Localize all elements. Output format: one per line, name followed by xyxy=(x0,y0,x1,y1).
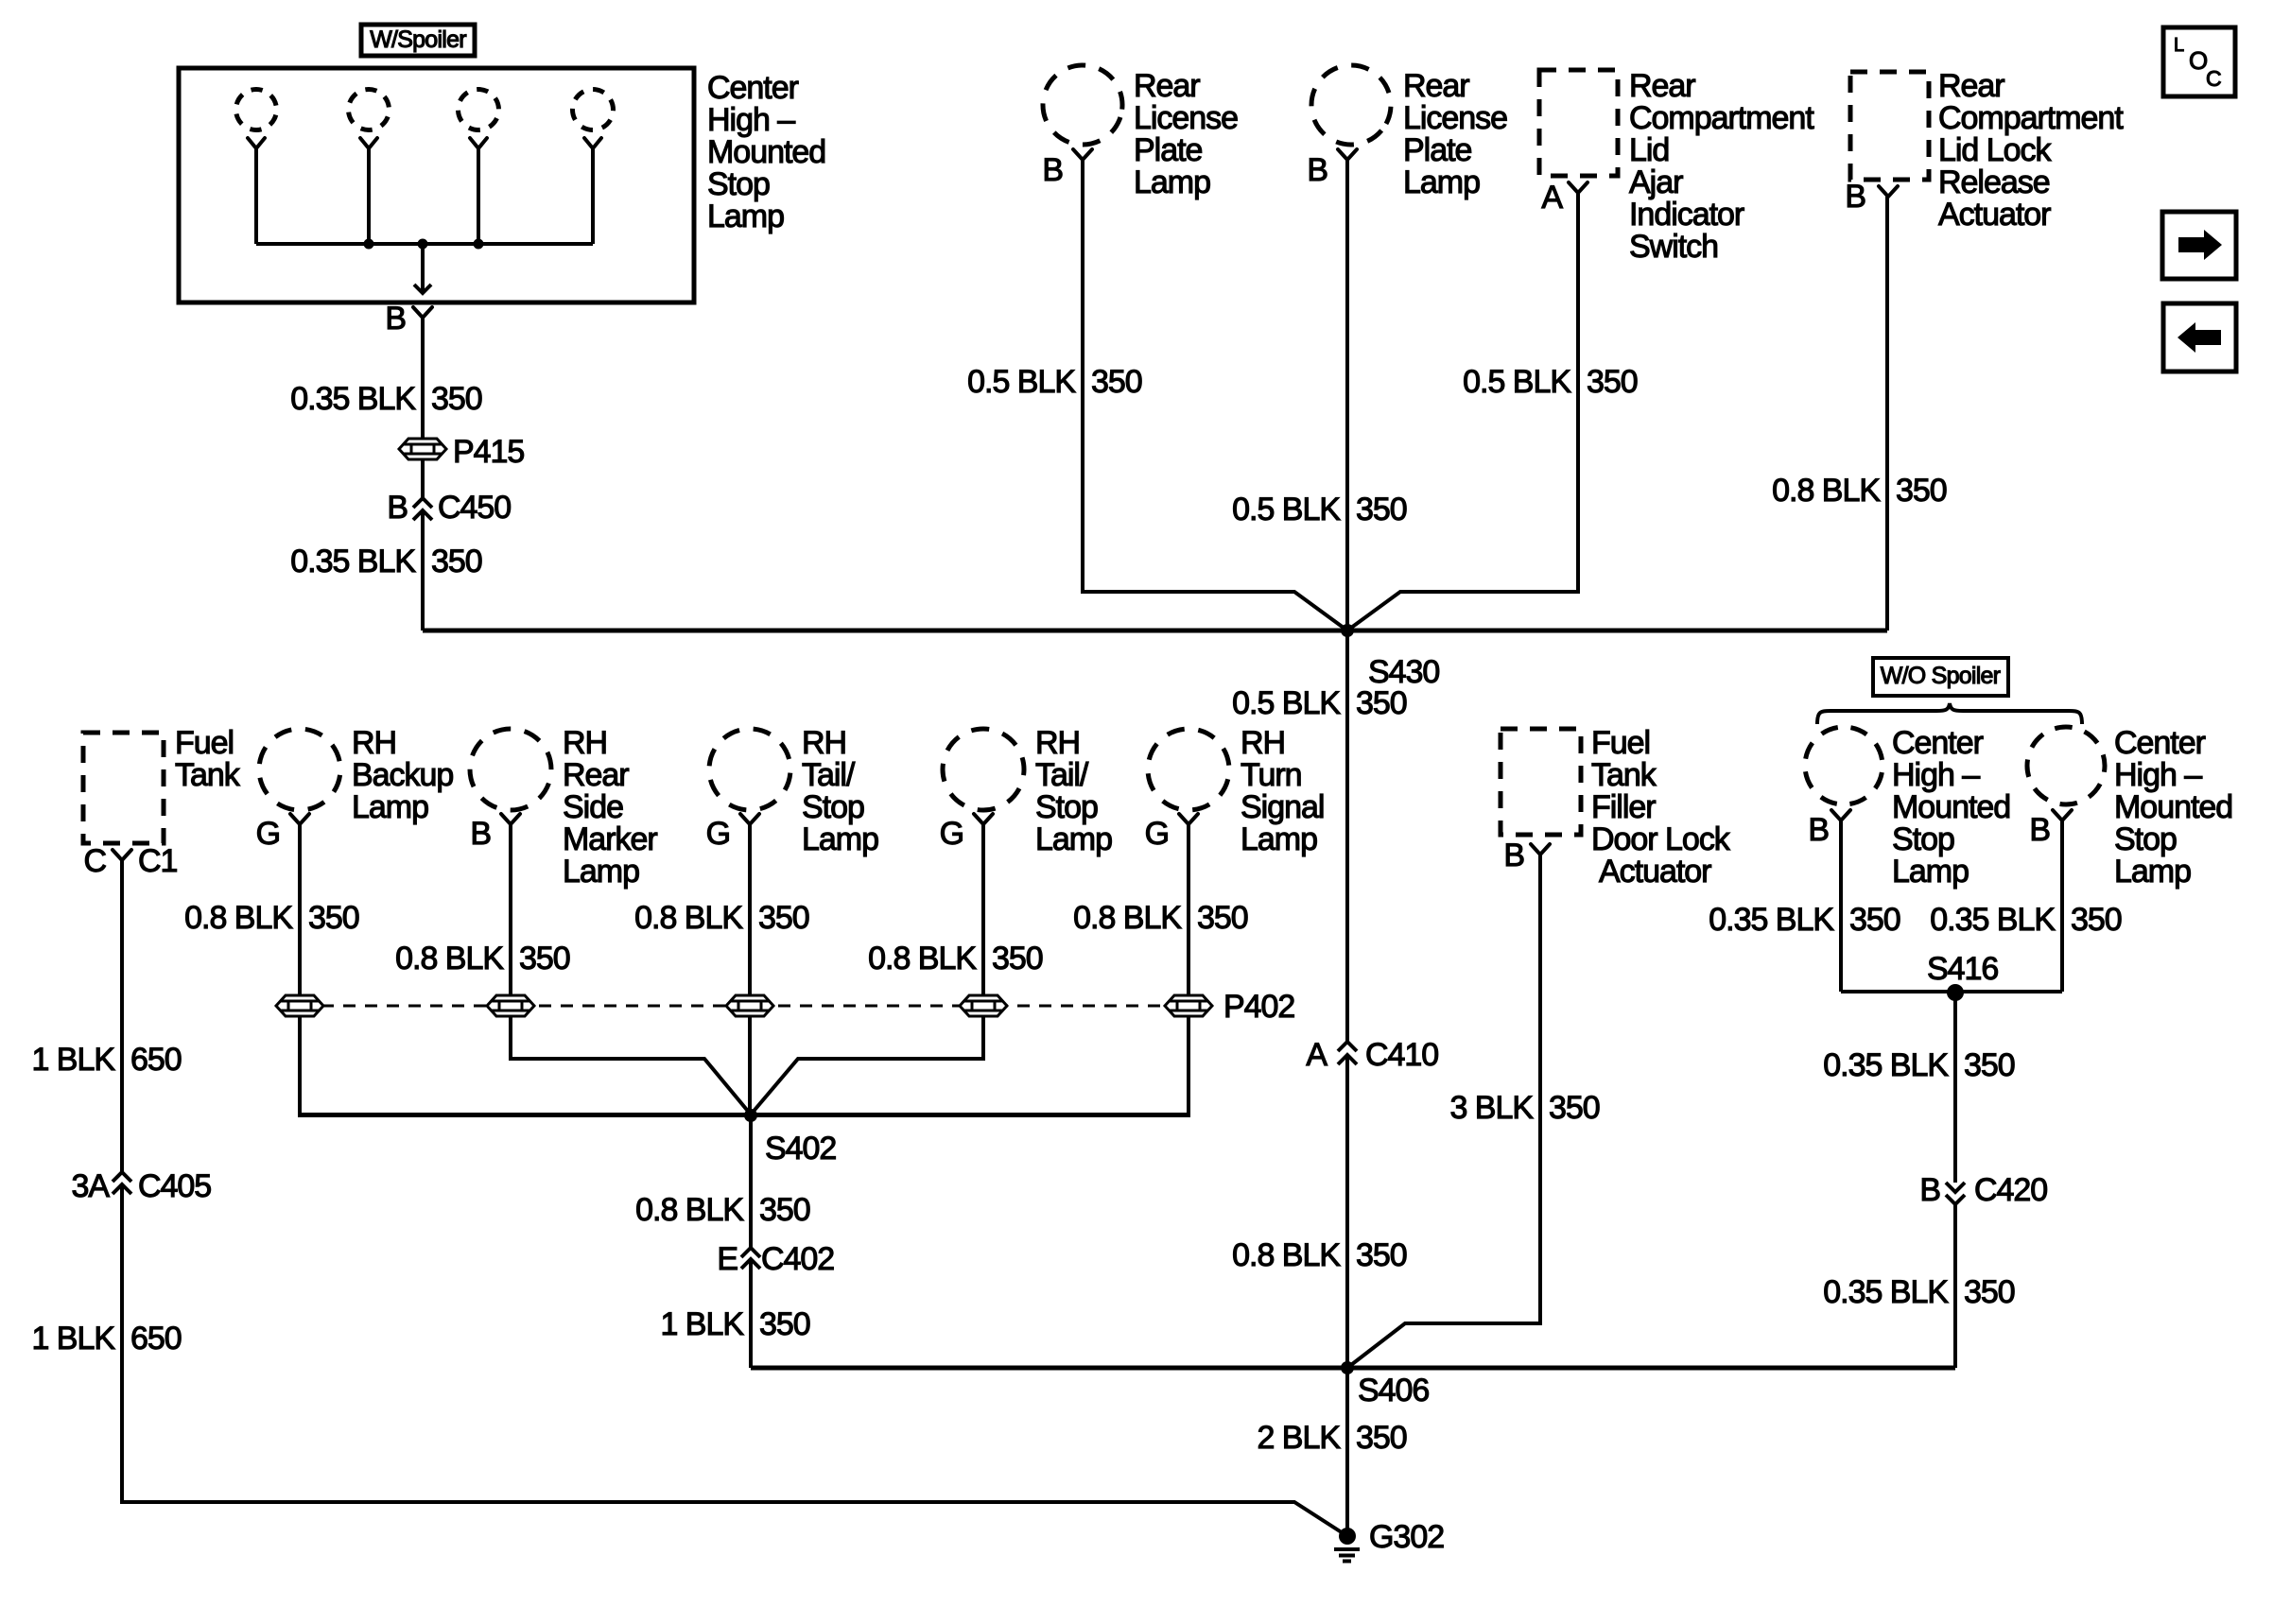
wire label 0.35 BLK 350 xyxy=(290,544,482,579)
label: RH Tail/Stop Lamp (1) xyxy=(802,725,878,857)
wire label 1 BLK 650 xyxy=(31,1321,181,1356)
svg-text:350: 350 xyxy=(992,941,1043,976)
label: RH Rear Side Marker Lamp xyxy=(563,725,657,890)
svg-text:G: G xyxy=(256,816,280,852)
svg-text:350: 350 xyxy=(519,941,570,976)
svg-text:Mounted: Mounted xyxy=(1892,789,2010,825)
label: Center High-Mounted Stop Lamp (right, w/o spoiler) xyxy=(2114,725,2232,890)
wire 1 BLK 650 from C405 to G302 xyxy=(122,1184,1347,1536)
svg-text:Rear: Rear xyxy=(1938,68,2004,104)
wire label 0.8 BLK 350 xyxy=(868,941,1043,976)
wire 0.5 BLK 350 from lid ajar switch to S430 xyxy=(1347,193,1578,631)
svg-text:0.5 BLK: 0.5 BLK xyxy=(1463,364,1571,400)
svg-text:350: 350 xyxy=(1549,1090,1600,1126)
wire 0.8 BLK 350 from side marker through P402 xyxy=(509,824,512,995)
wire 0.35 BLK 350 from CHMSL to P415 xyxy=(421,318,425,439)
internal ground bus xyxy=(256,242,593,246)
grommet P402 at x=317 xyxy=(276,995,323,1016)
rear compartment lid lock release actuator (dashed box) xyxy=(1850,72,1929,180)
svg-text:Rear: Rear xyxy=(1629,68,1695,104)
filler door actuator pin fork xyxy=(1531,844,1550,855)
W/O Spoiler label box xyxy=(1873,658,2008,696)
svg-text:G302: G302 xyxy=(1369,1519,1444,1555)
license lamp 2 pin fork xyxy=(1338,149,1357,160)
svg-text:350: 350 xyxy=(1849,902,1900,938)
svg-text:0.8 BLK: 0.8 BLK xyxy=(1232,1237,1341,1273)
svg-text:P402: P402 xyxy=(1223,989,1294,1025)
svg-text:C402: C402 xyxy=(761,1241,834,1277)
bus output arrow xyxy=(421,244,425,292)
wire 0.5 BLK 350 from license lamp 1 to S430 xyxy=(1083,160,1347,631)
lid ajar switch pin fork xyxy=(1569,182,1588,193)
svg-text:Lamp: Lamp xyxy=(1403,164,1480,200)
svg-text:B: B xyxy=(387,490,408,526)
svg-text:B: B xyxy=(470,816,491,852)
grommet P402 at x=793 xyxy=(726,995,773,1016)
svg-text:RH: RH xyxy=(352,725,396,761)
wire label 0.35 BLK 350 xyxy=(1709,902,1900,938)
svg-text:P415: P415 xyxy=(453,434,524,470)
CHMSL bulb 3 (dashed circle) xyxy=(451,82,505,136)
svg-text:350: 350 xyxy=(758,900,809,936)
CHMSL bulb 2 (dashed circle) xyxy=(342,83,394,135)
S402 ground bus horizontal xyxy=(298,1113,1190,1117)
rear compartment lid ajar indicator switch (dashed box) xyxy=(1539,70,1618,176)
svg-text:L: L xyxy=(2174,35,2184,56)
svg-text:W/O Spoiler: W/O Spoiler xyxy=(1881,663,2001,689)
wire 0.8 BLK 350 from S402 to C402 xyxy=(749,1115,753,1248)
svg-text:Plate: Plate xyxy=(1134,132,1203,168)
left arrow navigation box xyxy=(2163,303,2236,371)
svg-text:C: C xyxy=(2206,66,2221,91)
wire side marker below P402, jog to S402 xyxy=(511,1016,751,1114)
bulb 2 pin fork xyxy=(360,138,377,148)
grommet P415 xyxy=(399,439,446,459)
wire label 0.5 BLK 350 xyxy=(967,364,1142,400)
svg-text:350: 350 xyxy=(1197,900,1248,936)
RH Tail/Stop Lamp (1) (dashed circle) xyxy=(705,725,793,813)
svg-text:W/Spoiler: W/Spoiler xyxy=(370,26,466,53)
svg-text:Lamp: Lamp xyxy=(1892,854,1969,890)
svg-text:Lamp: Lamp xyxy=(707,199,784,234)
bulb 3 pin fork xyxy=(470,138,487,148)
svg-text:Center: Center xyxy=(707,70,799,106)
bulb 4 pin fork xyxy=(584,138,601,148)
wire 0.8 BLK 350 from C410 to S406 xyxy=(1345,1055,1349,1368)
svg-text:Plate: Plate xyxy=(1403,132,1472,168)
wire 0.35 BLK 350 from C450 to S430 xyxy=(421,510,425,631)
wire label 0.8 BLK 350 xyxy=(184,900,359,936)
svg-text:350: 350 xyxy=(759,1192,810,1228)
wire label 0.35 BLK 350 xyxy=(1823,1274,2015,1310)
svg-text:B: B xyxy=(1808,812,1829,848)
svg-text:350: 350 xyxy=(1356,1237,1407,1273)
svg-text:RH: RH xyxy=(802,725,846,761)
svg-text:Mounted: Mounted xyxy=(707,134,825,170)
right CHMSL pin fork xyxy=(2053,810,2072,821)
svg-text:C420: C420 xyxy=(1974,1172,2047,1208)
svg-text:RH: RH xyxy=(1035,725,1080,761)
svg-text:Actuator: Actuator xyxy=(1938,197,2051,233)
RH Tail/Stop Lamp (2) pin fork xyxy=(974,814,993,824)
wire from bulb 1 to internal bus xyxy=(254,148,258,244)
svg-text:0.8 BLK: 0.8 BLK xyxy=(184,900,293,936)
svg-text:0.5 BLK: 0.5 BLK xyxy=(967,364,1076,400)
svg-text:0.35 BLK: 0.35 BLK xyxy=(290,544,416,579)
svg-text:License: License xyxy=(1134,100,1238,136)
svg-text:Stop: Stop xyxy=(1892,821,1954,857)
svg-text:Side: Side xyxy=(563,789,623,825)
svg-text:Indicator: Indicator xyxy=(1629,197,1744,233)
wire P415 to C450 xyxy=(421,459,425,498)
svg-text:350: 350 xyxy=(431,544,482,579)
wire label 2 BLK 350 xyxy=(1257,1420,1406,1456)
svg-text:G: G xyxy=(706,816,730,852)
rear license plate lamp 2 (dashed circle) xyxy=(1295,49,1407,161)
RH Backup Lamp pin fork xyxy=(290,814,309,824)
wire label 0.8 BLK 350 xyxy=(1772,473,1947,509)
inline connector C405 (cavity 3A) xyxy=(113,1172,131,1182)
wire 0.8 BLK 350 from release actuator to S430 bus xyxy=(1885,197,1889,631)
grommet P402 at x=1257 xyxy=(1165,995,1212,1016)
wire label 0.5 BLK 350 xyxy=(1232,492,1407,527)
label: Fuel Tank xyxy=(175,725,241,793)
wire label 0.5 BLK 350 xyxy=(1232,685,1407,721)
splice S430 xyxy=(1341,624,1354,637)
svg-text:Switch: Switch xyxy=(1629,229,1718,265)
svg-text:1 BLK: 1 BLK xyxy=(31,1042,115,1078)
svg-text:0.5 BLK: 0.5 BLK xyxy=(1232,492,1341,527)
label: Center High-Mounted Stop Lamp (w/spoiler) xyxy=(707,70,825,234)
license lamp 1 pin fork xyxy=(1073,149,1092,160)
svg-text:0.35 BLK: 0.35 BLK xyxy=(1930,902,2056,938)
svg-text:Lamp: Lamp xyxy=(352,789,428,825)
center high-mounted stop lamp right w/o spoiler (dashed circle) xyxy=(2014,714,2119,819)
svg-text:650: 650 xyxy=(130,1042,182,1078)
label: Rear License Plate Lamp (2) xyxy=(1403,68,1507,200)
wire 0.5 BLK 350 from license lamp 2 to S430 xyxy=(1345,160,1349,631)
svg-text:350: 350 xyxy=(431,381,482,417)
svg-text:Stop: Stop xyxy=(1035,789,1098,825)
svg-text:350: 350 xyxy=(2071,902,2122,938)
svg-text:350: 350 xyxy=(1356,1420,1407,1456)
wire from bulb 4 to internal bus xyxy=(591,148,595,244)
wire 2 BLK 350 from S406 to G302 xyxy=(1345,1368,1349,1531)
svg-text:Rear: Rear xyxy=(1134,68,1200,104)
svg-text:3A: 3A xyxy=(71,1168,110,1204)
svg-text:350: 350 xyxy=(1896,473,1947,509)
svg-text:C450: C450 xyxy=(438,490,511,526)
svg-text:Tail/: Tail/ xyxy=(1035,757,1089,793)
fuel tank pin fork xyxy=(113,850,131,860)
wire 1 BLK 650 from fuel tank to C405 xyxy=(120,860,124,1172)
svg-text:350: 350 xyxy=(1091,364,1142,400)
bulb 1 pin fork xyxy=(248,138,265,148)
svg-text:High –: High – xyxy=(2114,757,2202,793)
wire label 0.35 BLK 350 xyxy=(1823,1047,2015,1083)
wire 0.8 BLK 350 from tail/stop 2 through P402 xyxy=(981,824,985,995)
wire label 0.8 BLK 350 xyxy=(1232,1237,1407,1273)
RH Rear Side Marker Lamp pin fork xyxy=(501,814,520,824)
svg-text:0.5 BLK: 0.5 BLK xyxy=(1232,685,1341,721)
fuel tank filler door lock actuator (dashed box) xyxy=(1501,729,1581,835)
RH Backup Lamp (dashed circle) xyxy=(253,723,345,815)
svg-text:Signal: Signal xyxy=(1241,789,1324,825)
svg-text:350: 350 xyxy=(759,1306,810,1342)
svg-text:0.8 BLK: 0.8 BLK xyxy=(868,941,977,976)
bus junction dot right xyxy=(474,239,484,250)
svg-text:0.8 BLK: 0.8 BLK xyxy=(1073,900,1182,936)
label: RH Backup Lamp xyxy=(352,725,453,825)
bus junction dot left xyxy=(364,239,374,250)
right arrow navigation box xyxy=(2162,212,2236,279)
svg-text:Stop: Stop xyxy=(2114,821,2177,857)
svg-text:Center: Center xyxy=(2114,725,2206,761)
wire 3 BLK 350 from filler door actuator to S406 xyxy=(1347,855,1540,1368)
svg-text:S402: S402 xyxy=(765,1131,836,1166)
svg-text:Mounted: Mounted xyxy=(2114,789,2232,825)
svg-text:1 BLK: 1 BLK xyxy=(660,1306,744,1342)
svg-text:0.35 BLK: 0.35 BLK xyxy=(1709,902,1834,938)
wire tail/stop 2 below P402, jog to S402 xyxy=(751,1016,983,1114)
wire 0.35 BLK 350 right CHMSL to S416 xyxy=(2060,821,2064,992)
wire label 0.35 BLK 350 xyxy=(290,381,482,417)
label: RH Turn Signal Lamp xyxy=(1241,725,1324,857)
svg-text:Lamp: Lamp xyxy=(1035,821,1112,857)
svg-text:Tail/: Tail/ xyxy=(802,757,856,793)
svg-text:Lamp: Lamp xyxy=(2114,854,2191,890)
RH Tail/Stop Lamp (2) (dashed circle) xyxy=(928,715,1038,824)
svg-text:Lamp: Lamp xyxy=(1241,821,1317,857)
svg-text:A: A xyxy=(1541,180,1563,216)
wire label 0.8 BLK 350 xyxy=(634,900,809,936)
svg-text:Stop: Stop xyxy=(707,166,770,202)
wire label 1 BLK 650 xyxy=(31,1042,181,1078)
svg-text:B: B xyxy=(1042,152,1063,188)
svg-text:RH: RH xyxy=(1241,725,1285,761)
svg-text:G: G xyxy=(1145,816,1169,852)
svg-text:Rear: Rear xyxy=(563,757,629,793)
svg-text:Tank: Tank xyxy=(175,757,241,793)
center high-mounted stop lamp left w/o spoiler (dashed circle) xyxy=(1799,721,1889,811)
wire 0.5 BLK 350 from S430 down to C410 xyxy=(1345,631,1349,1042)
svg-text:0.35 BLK: 0.35 BLK xyxy=(1823,1047,1949,1083)
svg-text:1 BLK: 1 BLK xyxy=(31,1321,115,1356)
S416 bus xyxy=(1841,990,2062,993)
svg-text:Stop: Stop xyxy=(802,789,864,825)
brace under W/O Spoiler label xyxy=(1817,703,2082,724)
CHMSL bulb 4 (dashed circle) xyxy=(565,82,621,138)
svg-text:Marker: Marker xyxy=(563,821,657,857)
svg-text:Ajar: Ajar xyxy=(1629,164,1683,200)
RH Tail/Stop Lamp (1) pin fork xyxy=(740,814,759,824)
svg-text:350: 350 xyxy=(1356,685,1407,721)
svg-text:0.35 BLK: 0.35 BLK xyxy=(1823,1274,1949,1310)
wire 1 BLK 350 from C402 to S406 xyxy=(749,1259,753,1368)
svg-text:Fuel: Fuel xyxy=(1591,725,1650,761)
ground G302 xyxy=(1334,1528,1360,1562)
wire from bulb 3 to internal bus xyxy=(477,148,480,244)
label: Fuel Tank Filler Door Lock Actuator xyxy=(1591,725,1731,890)
S406 ground bus horizontal xyxy=(751,1366,1955,1371)
svg-text:RH: RH xyxy=(563,725,607,761)
svg-text:Fuel: Fuel xyxy=(175,725,234,761)
inline connector C450 (pin B) xyxy=(413,498,432,508)
svg-text:High –: High – xyxy=(1892,757,1980,793)
svg-text:A: A xyxy=(1306,1037,1327,1073)
svg-text:B: B xyxy=(385,301,406,337)
wire label 1 BLK 350 xyxy=(660,1306,809,1342)
svg-text:S406: S406 xyxy=(1358,1373,1429,1408)
svg-text:Door Lock: Door Lock xyxy=(1591,821,1731,857)
svg-text:S416: S416 xyxy=(1927,951,1998,987)
wire label 0.8 BLK 350 xyxy=(1073,900,1248,936)
splice S402 xyxy=(744,1109,757,1122)
LOC reference box xyxy=(2163,27,2235,96)
svg-text:B: B xyxy=(1919,1172,1940,1208)
svg-text:Compartment: Compartment xyxy=(1938,100,2124,136)
wire label 0.8 BLK 350 xyxy=(395,941,570,976)
wire label 0.35 BLK 350 xyxy=(1930,902,2122,938)
label: Rear License Plate Lamp (1) xyxy=(1134,68,1238,200)
svg-text:B: B xyxy=(1845,179,1865,215)
grommet P402 at x=1040 xyxy=(960,995,1007,1016)
svg-text:C405: C405 xyxy=(138,1168,211,1204)
grommet P402 at x=540 xyxy=(487,995,534,1016)
svg-text:350: 350 xyxy=(1587,364,1638,400)
wire backup lamp below P402 to S402 bus xyxy=(298,1016,302,1114)
svg-text:Turn: Turn xyxy=(1241,757,1302,793)
inline connector C402 (pin E) xyxy=(741,1248,760,1257)
svg-text:0.8 BLK: 0.8 BLK xyxy=(635,1192,744,1228)
inline connector C410 (cavity A) xyxy=(1338,1042,1357,1051)
svg-text:C410: C410 xyxy=(1365,1037,1438,1073)
wire label 3 BLK 350 xyxy=(1449,1090,1599,1126)
inline connector C420 (pin B) xyxy=(1946,1183,1965,1192)
svg-text:650: 650 xyxy=(130,1321,182,1356)
svg-text:350: 350 xyxy=(1964,1274,2015,1310)
svg-text:C: C xyxy=(83,843,106,879)
svg-text:E: E xyxy=(717,1241,737,1277)
svg-text:O: O xyxy=(2189,46,2207,75)
svg-text:B: B xyxy=(1307,152,1327,188)
fuel tank (dashed box) xyxy=(83,733,164,843)
svg-text:Rear: Rear xyxy=(1403,68,1469,104)
left CHMSL pin fork xyxy=(1831,810,1850,821)
release actuator pin fork xyxy=(1879,186,1898,197)
wire label 0.8 BLK 350 xyxy=(635,1192,810,1228)
svg-text:Compartment: Compartment xyxy=(1629,100,1814,136)
splice S406 xyxy=(1341,1361,1354,1374)
svg-text:B: B xyxy=(2029,812,2050,848)
wire 0.8 BLK 350 from turn signal through P402 xyxy=(1187,824,1190,995)
svg-text:0.8 BLK: 0.8 BLK xyxy=(395,941,504,976)
svg-text:350: 350 xyxy=(1356,492,1407,527)
label: Rear Compartment Lid Lock Release Actuator xyxy=(1938,68,2124,233)
svg-text:Backup: Backup xyxy=(352,757,453,793)
wire tail/stop 1 below P402 to S402 xyxy=(748,1016,752,1114)
svg-text:Lid Lock: Lid Lock xyxy=(1938,132,2052,168)
label: Rear Compartment Lid Ajar Indicator Switch xyxy=(1629,68,1814,265)
bus junction dot center xyxy=(418,239,428,250)
svg-text:Filler: Filler xyxy=(1591,789,1656,825)
svg-text:Actuator: Actuator xyxy=(1599,854,1711,890)
RH Rear Side Marker Lamp (dashed circle) xyxy=(459,717,563,821)
RH Turn Signal Lamp (dashed circle) xyxy=(1139,720,1238,819)
rear license plate lamp 1 (dashed circle) xyxy=(1032,55,1133,155)
svg-text:2 BLK: 2 BLK xyxy=(1257,1420,1341,1456)
label: RH Tail/Stop Lamp (2) xyxy=(1035,725,1112,857)
RH Turn Signal Lamp pin fork xyxy=(1179,814,1198,824)
svg-text:Lid: Lid xyxy=(1629,132,1669,168)
label: Center High-Mounted Stop Lamp (left, w/o spoiler) xyxy=(1892,725,2010,890)
svg-text:License: License xyxy=(1403,100,1507,136)
wire 0.8 BLK 350 from tail/stop 1 through P402 xyxy=(748,824,752,995)
S430 ground bus horizontal xyxy=(423,629,1887,633)
wire 0.35 BLK 350 left CHMSL to S416 xyxy=(1839,821,1843,992)
svg-text:G: G xyxy=(940,816,963,852)
svg-text:Lamp: Lamp xyxy=(563,854,639,890)
svg-text:3 BLK: 3 BLK xyxy=(1449,1090,1534,1126)
wire 0.35 BLK 350 from C420 to S406 xyxy=(1953,1204,1957,1368)
svg-text:B: B xyxy=(1503,838,1524,873)
svg-text:350: 350 xyxy=(308,900,359,936)
wire 0.8 BLK 350 from backup lamp through P402 xyxy=(298,824,302,995)
svg-text:0.8 BLK: 0.8 BLK xyxy=(1772,473,1881,509)
harness pass-through dashed line (P402 row) xyxy=(300,1005,1189,1008)
svg-text:350: 350 xyxy=(1964,1047,2015,1083)
center high mounted stop lamp module outline (w/spoiler) xyxy=(179,68,694,302)
wire from bulb 2 to internal bus xyxy=(367,148,371,244)
wire 0.35 BLK 350 from S416 to C420 xyxy=(1953,993,1957,1183)
svg-text:Release: Release xyxy=(1938,164,2050,200)
svg-text:High –: High – xyxy=(707,102,795,138)
CHMSL bulb 1 (dashed circle) xyxy=(232,85,282,135)
svg-text:0.8 BLK: 0.8 BLK xyxy=(634,900,743,936)
svg-text:Lamp: Lamp xyxy=(802,821,878,857)
wire turn signal below P402 to S402 bus xyxy=(1187,1016,1190,1114)
wire label 0.5 BLK 350 xyxy=(1463,364,1638,400)
svg-text:Center: Center xyxy=(1892,725,1984,761)
svg-text:C1: C1 xyxy=(138,843,178,879)
svg-text:Lamp: Lamp xyxy=(1134,164,1210,200)
svg-text:0.35 BLK: 0.35 BLK xyxy=(290,381,416,417)
svg-text:Tank: Tank xyxy=(1591,757,1657,793)
splice S416 xyxy=(1947,984,1964,1001)
W/Spoiler label box xyxy=(361,25,475,56)
CHMSL module pin B fork xyxy=(413,307,432,318)
